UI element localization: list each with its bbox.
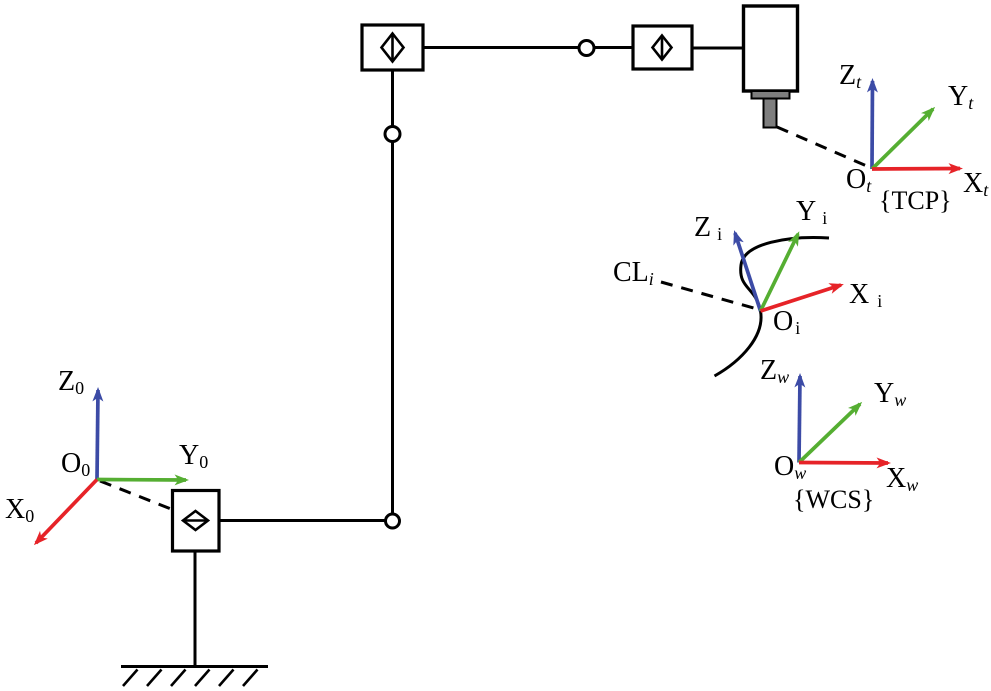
dashed line from tool tip to frame Ot	[777, 127, 869, 167]
joint J1 box	[362, 25, 423, 70]
dashed line from base frame O0 to joint J3	[100, 481, 171, 509]
frame O0 X axis arrow	[36, 480, 97, 544]
frame Oi Y axis arrow	[761, 234, 799, 311]
svg-text:CLi: CLi	[613, 257, 654, 289]
tool shank	[764, 99, 777, 128]
frame O0 Z axis arrow	[97, 390, 98, 480]
link wire from joint J2 to tool	[692, 47, 743, 50]
base link from joint J3 to ground	[194, 551, 197, 667]
frame O0 Y axis arrow	[97, 478, 186, 482]
dashed cutter location line CLi	[661, 282, 757, 309]
horizontal link from joint J3 to vertical link	[219, 519, 392, 522]
ground line	[121, 665, 268, 668]
node circle N3 at link corner	[386, 514, 400, 528]
frame Ow X axis arrow	[799, 461, 888, 465]
joint J1 diamond symbol	[382, 34, 404, 62]
link L1 wire from joint J1 to joint J2	[423, 46, 633, 49]
vertical link from joint J1 down	[391, 70, 394, 521]
tool collar	[752, 91, 790, 99]
svg-text:{WCS}: {WCS}	[793, 485, 874, 514]
frame Ot X axis arrow	[872, 167, 960, 171]
frame Ow Y axis arrow	[799, 404, 860, 463]
frame Oi Z axis arrow	[735, 233, 761, 311]
node circle N1 on link L1	[579, 41, 594, 56]
frame Ot Y axis arrow	[872, 109, 933, 169]
joint J3 box	[173, 491, 220, 552]
node circle N2 on vertical link	[385, 127, 400, 142]
frame Ot Z axis arrow	[870, 81, 874, 169]
tool spindle housing	[744, 6, 798, 91]
svg-text:{TCP}: {TCP}	[879, 186, 952, 215]
joint J2 box	[633, 26, 692, 69]
workpiece surface curve	[715, 238, 830, 376]
joint J3 diamond symbol	[183, 511, 208, 530]
ground hatching	[123, 670, 258, 687]
joint J2 diamond symbol	[653, 36, 672, 60]
frame Oi X axis arrow	[761, 285, 842, 311]
frame Ow Z axis arrow	[799, 376, 800, 463]
